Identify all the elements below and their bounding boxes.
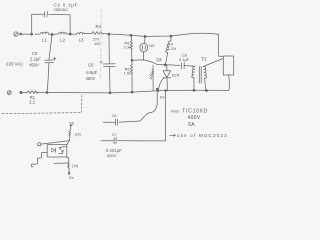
node L4-bottom junction — [164, 64, 166, 66]
terminal Fb (arrow up) — [70, 124, 72, 128]
wire top rail — [20, 33, 219, 36]
svg-text:L2: L2 — [60, 38, 65, 43]
capacitor C6 — [103, 89, 157, 125]
svg-text:(1k): (1k) — [75, 132, 81, 136]
svg-text:250VAC: 250VAC — [54, 7, 69, 12]
node: wire start dot — [20, 33, 22, 35]
svg-text:R4: R4 — [96, 24, 102, 29]
inductor L1 — [40, 32, 49, 34]
node T2-right-bottom — [206, 90, 208, 92]
optocoupler U1 box — [47, 145, 67, 157]
svg-text:0.001µF: 0.001µF — [106, 148, 123, 153]
terminal P (top-left AC input) — [14, 32, 18, 36]
svg-text:C7: C7 — [112, 133, 117, 137]
node C5-top — [108, 33, 110, 35]
resistor R6 on left branch — [130, 60, 132, 92]
svg-text:L3: L3 — [79, 38, 84, 43]
inductor L4 (1.2H vertical) — [165, 36, 171, 65]
svg-text:C5: C5 — [88, 63, 94, 68]
resistor R7 (vertical, gate shunt) — [152, 65, 154, 91]
node C5-bottom — [109, 92, 111, 94]
node C7-rail junction — [165, 90, 167, 92]
node R5-R6 junction — [131, 59, 133, 61]
wire junction down to U1 pin6 — [67, 141, 69, 145]
inductor L2 — [58, 32, 66, 34]
svg-text:220 VAC: 220 VAC — [6, 62, 23, 67]
svg-text:use of MOC3023: use of MOC3023 — [177, 133, 228, 138]
wire gate bus (R5/R6 junction to C8) — [132, 60, 180, 66]
svg-text:3.3k: 3.3k — [123, 45, 131, 50]
capacitor C8 (0.1uF) — [182, 63, 185, 69]
wire C8 to T2 — [184, 65, 195, 68]
dashed isolation line vertical — [80, 94, 83, 112]
node C6-rail junction — [156, 88, 158, 90]
svg-text:6A: 6A — [188, 122, 195, 128]
node R6-bottom — [131, 91, 133, 93]
svg-text:1.2H: 1.2H — [168, 46, 177, 51]
resistor Rb (1k) to Fb — [69, 128, 71, 140]
dashed isolation line — [2, 113, 81, 114]
faint vertical crease line — [100, 8, 103, 78]
terminal Fa (arrow down) — [68, 171, 70, 175]
wire under box — [54, 162, 69, 164]
node B (loop right) — [69, 33, 71, 35]
neon lamp NE — [140, 36, 148, 59]
svg-text:T2: T2 — [201, 56, 207, 61]
capacitor C2 bypass loop — [32, 11, 70, 34]
node NE-top — [144, 36, 146, 38]
wire input-1 to U1 top pin junction — [41, 141, 69, 145]
svg-text:600V: 600V — [107, 153, 117, 158]
svg-text:L1: L1 — [42, 38, 47, 43]
svg-text:C6: C6 — [112, 114, 117, 118]
svg-text:6.8µF: 6.8µF — [86, 70, 97, 75]
capacitor C5 (6.8uF 450V) — [100, 34, 116, 93]
node R5-top — [130, 34, 132, 36]
wire U1 pin4 junction — [67, 157, 69, 163]
terminal N (bottom-left AC input) — [7, 91, 11, 95]
resistor Ra (1k) to Fa — [68, 163, 70, 173]
svg-text:Fb: Fb — [69, 121, 74, 126]
resistor R4 — [92, 32, 104, 35]
note arrow — [170, 134, 176, 136]
svg-text:450V: 450V — [86, 76, 96, 81]
node C3-top — [51, 34, 53, 36]
capacitor C3 (2.2uF 450V) — [45, 34, 56, 92]
triac inside U1 — [59, 147, 66, 154]
node R1-left dot — [20, 91, 22, 93]
svg-text:2.2: 2.2 — [29, 100, 35, 105]
svg-text:NE: NE — [149, 44, 155, 48]
inductor L3 — [77, 32, 85, 34]
node C3-bottom — [46, 92, 48, 94]
svg-text:2.2µF: 2.2µF — [30, 56, 41, 61]
node SCR-cathode-bottom — [157, 90, 159, 92]
wire bottom rail — [23, 90, 229, 93]
capacitor C7 — [101, 91, 166, 144]
svg-text:1.5k: 1.5k — [124, 71, 132, 76]
node L4-top — [170, 35, 172, 37]
SCR Q1 (TIC106D) — [158, 65, 171, 91]
terminal input-1 (circle) — [38, 143, 41, 146]
svg-text:450V: 450V — [29, 63, 39, 68]
resistor R1 (2.2) — [27, 91, 38, 94]
load rectangle (output device) — [219, 34, 234, 90]
LED inside U1 — [52, 148, 56, 152]
node A (loop left) — [31, 33, 33, 35]
svg-text:1W: 1W — [94, 41, 100, 46]
resistor R5 (3.3k) on left branch — [130, 35, 132, 60]
svg-text:SCR: SCR — [172, 74, 180, 78]
transformer T2 — [192, 59, 223, 91]
node T2-left-bottom — [193, 89, 195, 91]
svg-text:0.1µF: 0.1µF — [179, 57, 190, 62]
svg-text:(1k): (1k) — [72, 164, 78, 168]
svg-text:Q1: Q1 — [156, 57, 162, 62]
svg-text:100: 100 — [149, 74, 153, 80]
svg-text:400V: 400V — [188, 115, 201, 121]
terminal input-2 hook — [31, 164, 33, 167]
wire U1 pin2 to hook terminal — [33, 152, 47, 164]
